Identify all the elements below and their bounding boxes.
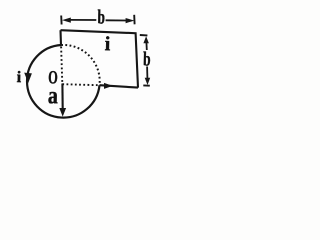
svg-text:b: b [97, 6, 105, 28]
svg-text:b: b [143, 48, 151, 70]
svg-text:a: a [48, 83, 59, 109]
svg-text:i: i [105, 33, 111, 55]
